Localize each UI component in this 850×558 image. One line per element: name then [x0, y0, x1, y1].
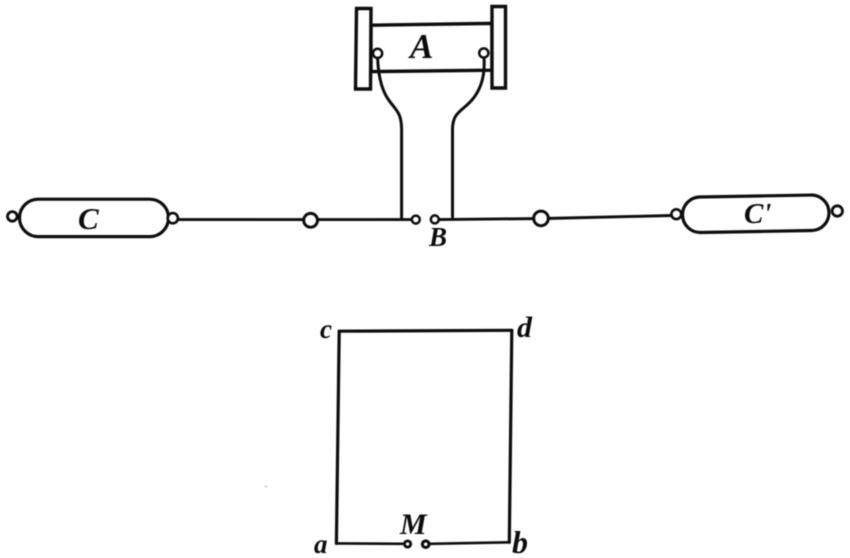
- wire from left terminal down to B: [378, 58, 402, 218]
- svg-text:A: A: [408, 27, 433, 66]
- insulating bead on right lead: [534, 211, 549, 226]
- resonator loop right side d-b: [509, 330, 512, 542]
- resonator loop bottom side M-b: [431, 542, 510, 544]
- svg-text:a: a: [314, 529, 328, 558]
- terminal left of A: [373, 49, 382, 58]
- end knob left of C: [8, 212, 18, 222]
- resonator loop top side c-d: [339, 329, 512, 333]
- svg-text:B: B: [428, 222, 447, 252]
- resonator loop left side c-a: [336, 331, 339, 543]
- end knob left of C': [671, 209, 681, 219]
- spark ball left at B: [412, 216, 420, 224]
- end knob right of C: [168, 213, 178, 223]
- resonator loop bottom side a-M: [336, 542, 403, 545]
- spark ball right at B: [431, 215, 439, 223]
- coil A right end plate: [492, 7, 506, 89]
- induction coil A body: [371, 23, 492, 71]
- wire left lead from capsule C to spark gap B: [179, 218, 411, 221]
- micrometer ball right at M: [422, 541, 429, 548]
- capsule capacitor C: [20, 199, 169, 236]
- svg-text:M: M: [399, 508, 428, 541]
- micrometer ball left at M: [405, 541, 411, 547]
- svg-text:b: b: [512, 524, 528, 558]
- terminal right of A: [479, 48, 488, 57]
- capsule capacitor C': [682, 195, 829, 233]
- insulating bead on left lead: [304, 213, 318, 227]
- svg-text:C': C': [744, 198, 771, 230]
- wire from right terminal down to B: [453, 58, 485, 217]
- svg-text:C: C: [78, 201, 99, 236]
- svg-text:d: d: [517, 311, 533, 344]
- wire right lead from spark gap B to capsule C': [439, 216, 672, 220]
- coil A left end plate: [356, 9, 372, 90]
- svg-text:c: c: [320, 314, 332, 344]
- end knob right of C': [832, 206, 842, 216]
- stray speck: [265, 485, 267, 487]
